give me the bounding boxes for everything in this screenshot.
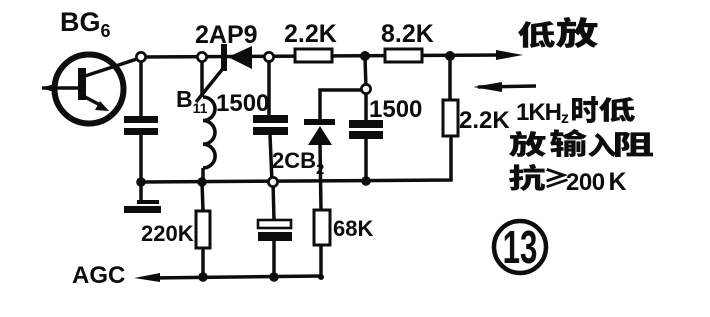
diode D1 2AP9 cathode bar: [221, 44, 227, 71]
junction J6: [198, 272, 208, 282]
wire branch to 2CB2: [320, 90, 364, 119]
resistor R5 68K: [314, 210, 330, 245]
wire top rail: [141, 55, 505, 57]
svg-text:220K: 220K: [141, 221, 194, 246]
svg-text:200K: 200K: [566, 168, 627, 196]
arrow AGC: [134, 273, 160, 282]
junction J1: [360, 51, 370, 61]
ground bar small: [137, 200, 159, 204]
wire 68K bottom: [319, 245, 323, 277]
transistor Q1 base lead arrow: [41, 84, 54, 92]
wire 220K bottom feed: [201, 248, 205, 277]
label shi-L1 char: [572, 96, 598, 123]
label fang-top char: [556, 17, 598, 48]
inductor B11 coil: [203, 97, 215, 168]
node T3: [264, 52, 273, 61]
wire left cap feed bottom: [139, 135, 143, 182]
label shu-L2 char: [550, 129, 587, 157]
label di-L1 char: [599, 97, 635, 122]
capacitor polar top plate: [258, 220, 291, 228]
svg-text:2.2K: 2.2K: [459, 107, 510, 134]
resistor R1 2.2K: [295, 49, 332, 62]
wire 2CB2 anode down to 68K: [320, 145, 321, 210]
svg-text:AGC: AGC: [72, 262, 125, 289]
wire node circle to cap C2: [364, 89, 368, 120]
arrow input left: [473, 82, 502, 92]
wire cap C1 bottom feed: [270, 135, 272, 182]
label geq-L3 char: [546, 168, 568, 188]
wire mid rail: [141, 136, 451, 182]
wire cap C1 top feed: [267, 57, 271, 116]
resistor R4 220K: [196, 211, 210, 248]
capacitor C2 1500 plates: [349, 120, 383, 128]
wire emitter lead: [85, 97, 102, 106]
wire polar cap top feed: [273, 182, 274, 220]
wire ground stub: [139, 182, 143, 203]
wire left cap feed top: [139, 57, 143, 116]
arrow output right: [496, 50, 523, 60]
svg-text:8.2K: 8.2K: [381, 20, 434, 48]
svg-text:1500: 1500: [369, 96, 422, 123]
wire cap C2 bottom feed: [364, 139, 368, 181]
diode D1 2AP9 triangle: [228, 46, 252, 69]
wire coil top feed: [200, 57, 204, 97]
svg-text:13: 13: [503, 222, 538, 273]
wire coil bottom feed: [201, 168, 205, 182]
svg-text:1500: 1500: [216, 90, 269, 117]
transistor Q1 BG6 circle: [55, 55, 124, 124]
wire input arrow line: [478, 86, 536, 87]
svg-text:68K: 68K: [333, 216, 373, 241]
label fang-L2 char: [509, 131, 546, 157]
junction J4: [197, 177, 207, 187]
capacitor left plates: [124, 116, 158, 123]
junction J2: [445, 51, 455, 61]
node T1: [136, 52, 145, 61]
wire 220K top feed: [202, 182, 203, 211]
capacitor polar bottom plate: [258, 232, 292, 241]
diode D2 2CB2 triangle: [308, 126, 332, 145]
svg-text:2AP9: 2AP9: [195, 21, 258, 49]
transistor Q1 base bar: [78, 68, 86, 100]
diode D2 2CB2 cathode bar: [304, 119, 335, 125]
node T2: [197, 52, 206, 61]
resistor R3 2.2K vertical: [443, 100, 458, 136]
label ru-L2 char: [588, 133, 616, 157]
wire polar cap bottom feed: [272, 241, 276, 277]
figure number 13 text: [503, 222, 538, 273]
junction J5: [361, 176, 371, 186]
wire node 365 down: [365, 57, 366, 89]
capacitor C1 1500 plates: [253, 115, 288, 123]
label di-top char: [518, 21, 555, 48]
wire collector lead: [85, 58, 140, 76]
junction J3: [136, 177, 146, 187]
svg-text:2.2K: 2.2K: [284, 20, 337, 48]
wire AGC bottom rail: [150, 276, 321, 278]
node T4: [361, 84, 370, 93]
inductor B11 core arrow: [196, 66, 225, 102]
ground bar large: [124, 206, 161, 213]
wire 2.2K right top feed: [448, 56, 452, 100]
junction J7: [269, 272, 279, 282]
wire base lead: [42, 86, 78, 90]
node T5: [268, 177, 277, 186]
transistor Q1 emitter arrow: [95, 101, 109, 111]
label kang-L3 char: [509, 164, 545, 191]
figure number 13 circle: [494, 221, 546, 273]
node terminal circles: [136, 52, 370, 186]
resistor R2 8.2K: [385, 49, 422, 62]
junction J8: [318, 274, 324, 280]
label zu-L2 char: [615, 132, 653, 157]
